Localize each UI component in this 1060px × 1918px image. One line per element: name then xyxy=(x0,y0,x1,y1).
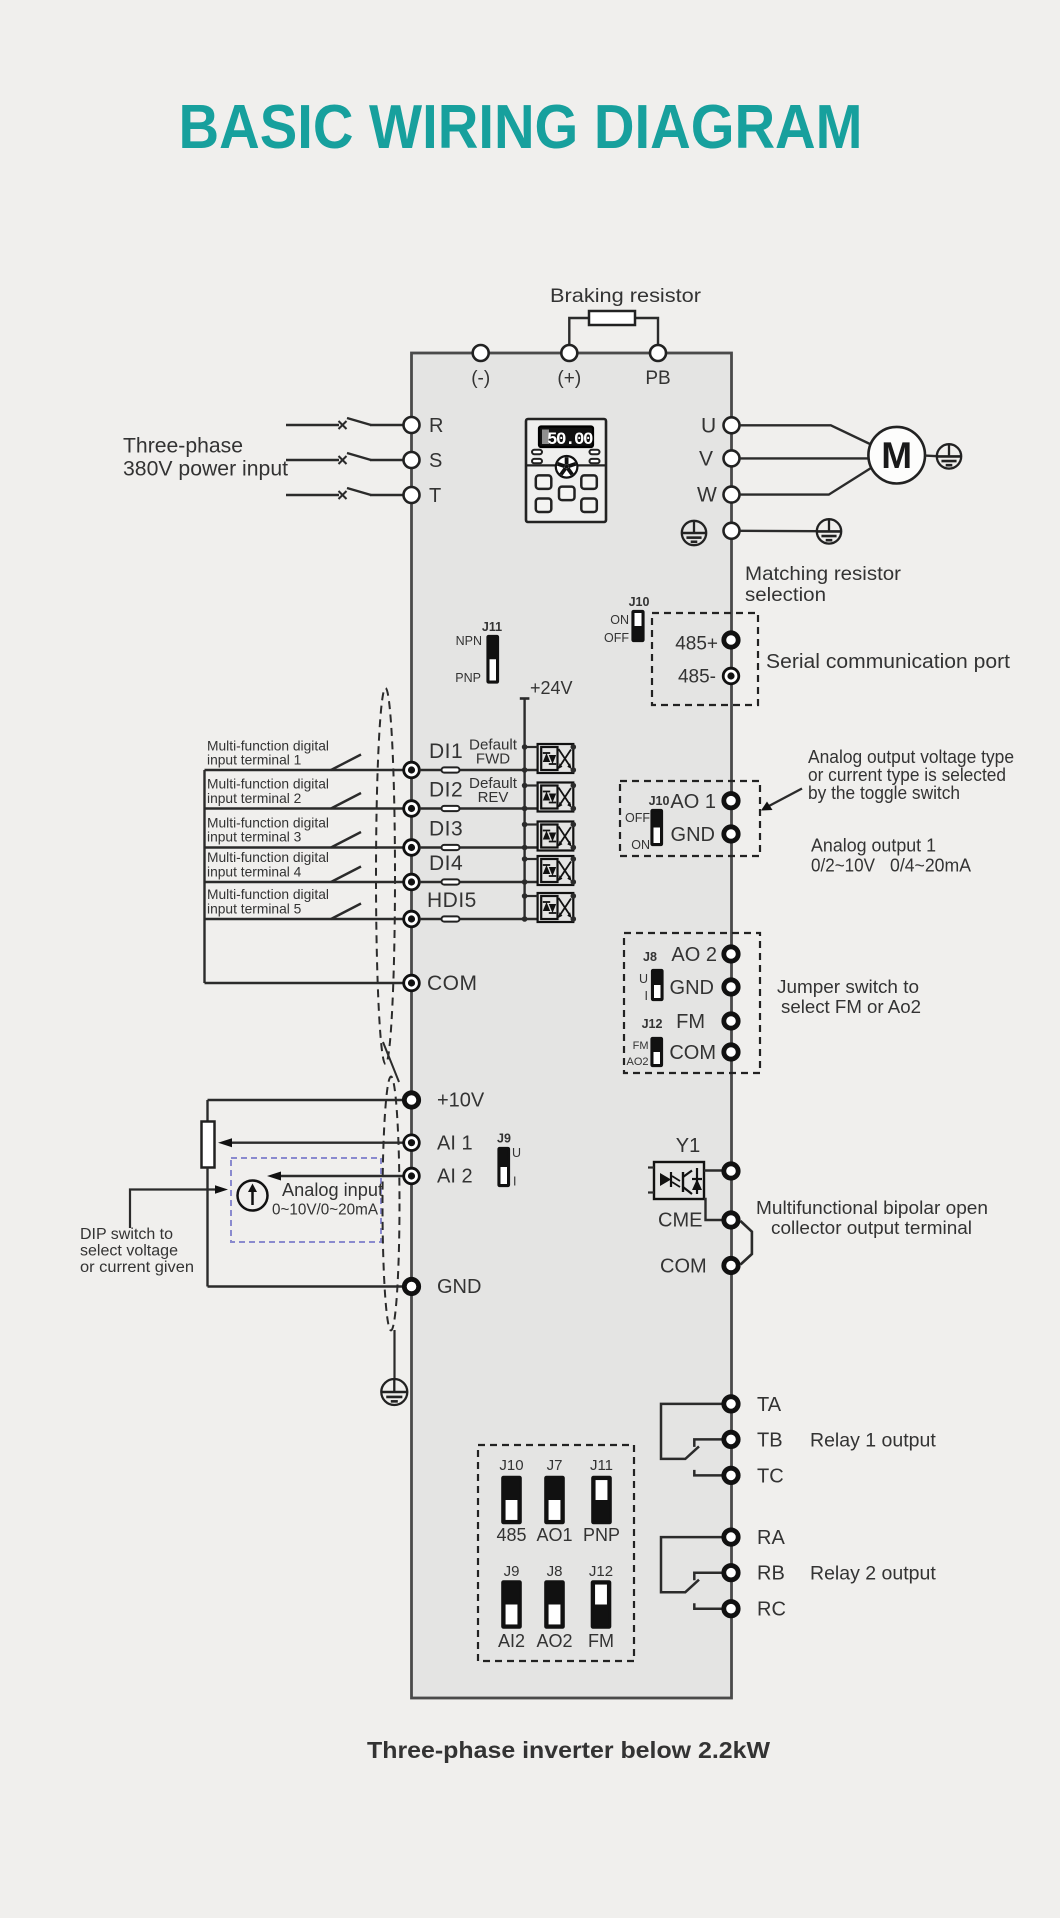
optocoupler Y1 xyxy=(654,1162,704,1199)
svg-text:Serial communication port: Serial communication port xyxy=(766,651,1010,673)
svg-text:Jumper switch to: Jumper switch to xyxy=(777,976,919,997)
svg-text:0~10V/0~20mA: 0~10V/0~20mA xyxy=(272,1202,378,1219)
svg-text:AO2: AO2 xyxy=(626,1056,648,1068)
svg-text:Braking resistor: Braking resistor xyxy=(550,285,702,307)
svg-text:I: I xyxy=(513,1175,516,1189)
wire input phase T xyxy=(286,494,339,496)
keypad panel xyxy=(526,419,606,522)
wire AI1 with wiper arrow xyxy=(231,1141,404,1143)
wire DI4 xyxy=(205,881,333,883)
svg-text:input terminal 2: input terminal 2 xyxy=(207,791,301,806)
svg-text:or current type is selected: or current type is selected xyxy=(808,765,1006,785)
svg-text:AO 1: AO 1 xyxy=(670,791,716,813)
terminal (+) xyxy=(561,345,577,361)
svg-text:OFF: OFF xyxy=(604,631,629,645)
svg-text:select voltage: select voltage xyxy=(80,1243,178,1260)
svg-text:GND: GND xyxy=(671,824,715,846)
svg-text:M: M xyxy=(881,435,912,476)
svg-text:or current given: or current given xyxy=(80,1259,194,1276)
svg-text:RA: RA xyxy=(757,1527,785,1549)
svg-text:J12: J12 xyxy=(589,1563,613,1580)
terminal PE right xyxy=(724,523,740,539)
svg-text:J11: J11 xyxy=(482,620,502,634)
svg-text:R: R xyxy=(429,415,443,437)
svg-text:380V power input: 380V power input xyxy=(123,458,288,481)
dashed box analog input xyxy=(231,1158,381,1242)
svg-text:Multi-function digital: Multi-function digital xyxy=(207,887,329,902)
svg-text:PNP: PNP xyxy=(583,1525,620,1545)
switch contact HDI5 xyxy=(331,904,361,920)
wire PE terminal to earth xyxy=(740,530,817,533)
wire W to motor xyxy=(740,468,872,495)
svg-text:50.00: 50.00 xyxy=(547,430,593,450)
svg-text:V: V xyxy=(699,447,713,470)
terminal +10V xyxy=(208,1099,404,1101)
svg-text:RC: RC xyxy=(757,1599,786,1621)
terminal R xyxy=(404,417,420,433)
svg-text:DIP switch to: DIP switch to xyxy=(80,1226,173,1243)
wire input phase R xyxy=(286,424,339,426)
svg-text:DI2: DI2 xyxy=(429,779,463,802)
svg-text:W: W xyxy=(697,484,717,507)
svg-text:COM: COM xyxy=(427,972,478,995)
svg-text:DI3: DI3 xyxy=(429,818,463,841)
svg-text:COM: COM xyxy=(669,1042,716,1064)
svg-text:+24V: +24V xyxy=(530,678,573,698)
svg-text:select FM or Ao2: select FM or Ao2 xyxy=(781,996,921,1017)
terminal RA xyxy=(724,1530,738,1544)
wire HDI5 to optocoupler xyxy=(420,918,538,920)
svg-text:U: U xyxy=(512,1146,521,1160)
inverter body outline xyxy=(412,353,732,1698)
terminal T xyxy=(404,487,420,503)
switch contact DI4 xyxy=(331,867,361,883)
dashed box analog output 1 xyxy=(620,781,760,856)
wire input phase S xyxy=(286,459,339,461)
motor M xyxy=(868,427,925,484)
svg-text:0/4~20mA: 0/4~20mA xyxy=(890,855,972,876)
svg-text:485-: 485- xyxy=(678,667,716,688)
wire to CME xyxy=(704,1199,723,1220)
svg-text:PNP: PNP xyxy=(455,671,481,685)
svg-text:AI2: AI2 xyxy=(498,1631,525,1651)
svg-text:by the toggle switch: by the toggle switch xyxy=(808,783,960,803)
svg-text:J10: J10 xyxy=(499,1457,523,1474)
breaker contact R xyxy=(339,421,347,429)
braking resistor RB xyxy=(589,311,635,325)
svg-text:J10: J10 xyxy=(649,794,670,808)
svg-text:input terminal 1: input terminal 1 xyxy=(207,753,301,768)
svg-text:J11: J11 xyxy=(590,1457,613,1474)
keypad display 50.00 xyxy=(539,427,593,448)
terminal DI3 xyxy=(404,840,420,856)
optocoupler U4 xyxy=(522,856,576,885)
terminal RB xyxy=(724,1566,738,1580)
relay contact Relay 1 output xyxy=(661,1404,723,1459)
wire HDI5 xyxy=(205,918,333,920)
wire motor to earth xyxy=(925,454,937,457)
wire DI2 to optocoupler xyxy=(420,807,538,809)
dashed box serial port xyxy=(652,613,758,705)
svg-text:ON: ON xyxy=(631,838,650,852)
svg-text:FM: FM xyxy=(676,1011,705,1033)
svg-text:J9: J9 xyxy=(504,1563,520,1580)
wire braking resistor to PB xyxy=(635,318,658,345)
wire AI2 with arrow xyxy=(280,1175,404,1177)
svg-text:J8: J8 xyxy=(547,1563,563,1580)
svg-text:(+): (+) xyxy=(557,368,581,389)
wire DI2 xyxy=(205,807,333,809)
svg-text:NPN: NPN xyxy=(456,634,482,648)
keypad divider xyxy=(526,464,606,466)
optocoupler U2 xyxy=(522,783,576,812)
svg-text:PB: PB xyxy=(645,368,670,389)
svg-text:J7: J7 xyxy=(547,1457,563,1474)
wire COM xyxy=(205,982,404,984)
keypad indicator leds xyxy=(532,450,542,454)
series resistor DI3 xyxy=(442,845,460,850)
terminal Y1 xyxy=(724,1164,738,1178)
svg-text:AO1: AO1 xyxy=(536,1525,572,1545)
svg-text:I: I xyxy=(645,989,648,1003)
svg-text:CME: CME xyxy=(658,1210,702,1232)
svg-text:Relay 2 output: Relay 2 output xyxy=(810,1563,936,1585)
keypad buttons xyxy=(536,475,552,489)
terminal RC xyxy=(724,1602,738,1616)
svg-text:selection: selection xyxy=(745,584,826,606)
series resistor DI4 xyxy=(442,879,460,884)
svg-text:input terminal 5: input terminal 5 xyxy=(207,901,302,916)
shield ellipse digital cable xyxy=(376,688,395,1064)
breaker contact T xyxy=(339,491,347,499)
wire DI3 to optocoupler xyxy=(420,846,538,848)
terminal S xyxy=(404,452,420,468)
svg-text:Multi-function digital: Multi-function digital xyxy=(207,815,329,830)
svg-text:GND: GND xyxy=(670,977,714,999)
svg-text:HDI5: HDI5 xyxy=(427,889,477,912)
svg-text:TB: TB xyxy=(757,1429,783,1451)
svg-text:Analog output voltage type: Analog output voltage type xyxy=(808,747,1014,767)
svg-text:Three-phase: Three-phase xyxy=(123,435,243,458)
svg-text:J10: J10 xyxy=(629,595,650,609)
svg-text:(-): (-) xyxy=(471,368,490,389)
svg-text:Multi-function digital: Multi-function digital xyxy=(207,777,329,792)
svg-text:ON: ON xyxy=(610,613,629,627)
earth symbol shield xyxy=(381,1379,407,1405)
dashed box AO2/FM xyxy=(624,933,760,1073)
svg-text:TC: TC xyxy=(757,1465,784,1487)
svg-text:AI 1: AI 1 xyxy=(437,1133,473,1155)
wire V to motor xyxy=(740,457,869,459)
terminal HDI5 xyxy=(404,911,420,927)
dashed box jumper legend xyxy=(478,1445,634,1661)
optocoupler U3 xyxy=(522,822,576,851)
svg-text:Analog output 1: Analog output 1 xyxy=(811,835,936,856)
svg-text:RB: RB xyxy=(757,1563,785,1585)
svg-text:T: T xyxy=(429,485,441,507)
terminal DI2 xyxy=(404,801,420,817)
svg-text:J8: J8 xyxy=(643,950,657,964)
series resistor DI2 xyxy=(442,806,460,811)
svg-text:Analog input: Analog input xyxy=(282,1179,383,1200)
wire Y1 out xyxy=(704,1169,723,1171)
keypad jog wheel xyxy=(556,456,578,478)
svg-text:U: U xyxy=(639,972,648,986)
wire DI1 xyxy=(205,769,333,771)
terminal TA xyxy=(724,1397,738,1411)
earth symbol at motor xyxy=(937,444,961,468)
terminal AI2 xyxy=(404,1168,420,1184)
svg-text:REV: REV xyxy=(478,789,509,806)
svg-text:Three-phase inverter below 2.2: Three-phase inverter below 2.2kW xyxy=(367,1737,770,1763)
svg-text:input terminal 3: input terminal 3 xyxy=(207,830,302,845)
shield drain wire xyxy=(393,1330,395,1380)
svg-text:DI4: DI4 xyxy=(429,852,463,875)
switch contact DI1 xyxy=(331,755,361,771)
svg-text:OFF: OFF xyxy=(625,811,650,825)
terminal TC xyxy=(724,1468,738,1482)
wire DI4 to optocoupler xyxy=(420,881,538,883)
svg-text:FM: FM xyxy=(588,1631,614,1651)
svg-text:DI1: DI1 xyxy=(429,740,463,763)
svg-text:Relay 1 output: Relay 1 output xyxy=(810,1430,936,1452)
svg-text:input terminal 4: input terminal 4 xyxy=(207,864,302,879)
svg-text:S: S xyxy=(429,450,442,472)
terminal DI4 xyxy=(404,874,420,890)
svg-text:485: 485 xyxy=(496,1525,526,1545)
svg-text:TA: TA xyxy=(757,1394,782,1416)
switch contact DI3 xyxy=(331,832,361,848)
svg-text:+10V: +10V xyxy=(437,1090,485,1112)
earth symbol external xyxy=(817,519,841,543)
note arrow to AO1 box xyxy=(768,789,802,807)
series resistor HDI5 xyxy=(442,916,460,921)
svg-text:Multifunctional bipolar open: Multifunctional bipolar open xyxy=(756,1197,988,1218)
svg-text:J12: J12 xyxy=(642,1017,663,1031)
svg-text:Multi-function digital: Multi-function digital xyxy=(207,738,329,753)
svg-text:FWD: FWD xyxy=(476,751,510,768)
svg-text:485+: 485+ xyxy=(675,634,718,655)
shield tail 1 xyxy=(383,1042,399,1082)
terminal (-) xyxy=(473,345,489,361)
svg-text:U: U xyxy=(701,414,716,437)
svg-text:Multi-function digital: Multi-function digital xyxy=(207,850,329,865)
shield ellipse analog cable xyxy=(383,1077,400,1331)
terminal AI1 xyxy=(404,1135,420,1151)
terminal COM xyxy=(404,975,420,991)
terminal PB xyxy=(650,345,666,361)
svg-text:AO2: AO2 xyxy=(536,1631,572,1651)
svg-text:Matching resistor: Matching resistor xyxy=(745,563,902,585)
series resistor DI1 xyxy=(442,767,460,772)
wire +24V bus xyxy=(523,699,525,920)
leader arrow DIP xyxy=(130,1190,216,1229)
optocoupler U5 xyxy=(522,893,576,922)
relay contact Relay 2 output xyxy=(661,1537,723,1592)
switch contact DI2 xyxy=(331,793,361,809)
link CME-COM xyxy=(741,1221,752,1265)
terminal DI1 xyxy=(404,762,420,778)
svg-text:AI 2: AI 2 xyxy=(437,1166,473,1188)
terminal TB xyxy=(724,1432,738,1446)
potentiometer RP1 xyxy=(206,1100,208,1122)
svg-text:collector output terminal: collector output terminal xyxy=(771,1217,972,1238)
svg-text:COM: COM xyxy=(660,1256,707,1278)
svg-text:0/2~10V: 0/2~10V xyxy=(811,855,876,876)
current source symbol xyxy=(238,1181,268,1211)
earth symbol inside box xyxy=(682,521,706,545)
optocoupler U1 xyxy=(522,744,576,773)
svg-text:GND: GND xyxy=(437,1276,481,1298)
svg-text:BASIC WIRING DIAGRAM: BASIC WIRING DIAGRAM xyxy=(179,93,863,162)
svg-text:FM: FM xyxy=(633,1040,649,1052)
wire DI3 xyxy=(205,846,333,848)
breaker contact S xyxy=(339,456,347,464)
svg-text:J9: J9 xyxy=(497,1132,511,1146)
svg-text:AO 2: AO 2 xyxy=(671,944,717,966)
svg-text:Y1: Y1 xyxy=(676,1135,700,1157)
wire U to motor xyxy=(740,425,872,444)
terminal GND analog xyxy=(208,1285,404,1287)
wire left bus xyxy=(203,770,205,983)
wire (+) to braking resistor xyxy=(569,318,589,345)
wire DI1 to optocoupler xyxy=(420,769,538,771)
